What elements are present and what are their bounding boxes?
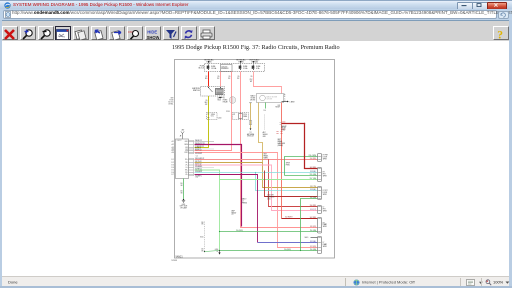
svg-text:E2 OR 22: E2 OR 22 bbox=[195, 148, 201, 150]
wire pink breaker leg to ignition switch bbox=[220, 72, 222, 87]
speaker connector C bbox=[318, 187, 322, 200]
wire dark red branch to connector B1 bbox=[282, 124, 318, 169]
wire red branch to connector D1 bbox=[269, 160, 318, 207]
wire green choke stub bbox=[264, 103, 267, 131]
svg-text:RADIO: RADIO bbox=[177, 139, 183, 142]
svg-text:RADIO: RADIO bbox=[242, 198, 248, 201]
label below ignition switch bbox=[218, 97, 222, 102]
svg-text:TO: TO bbox=[223, 98, 226, 100]
svg-text:GND: GND bbox=[263, 136, 266, 138]
svg-text:RD: RD bbox=[205, 78, 208, 80]
svg-text:(PREM): (PREM) bbox=[278, 145, 284, 147]
svg-text:DOOR: DOOR bbox=[323, 156, 327, 158]
svg-text:C126: C126 bbox=[243, 114, 247, 116]
circuit breaker box bbox=[221, 65, 233, 72]
svg-text:20: 20 bbox=[206, 100, 208, 102]
svg-text:FRT: FRT bbox=[323, 173, 326, 175]
svg-text:I/P: I/P bbox=[216, 251, 218, 253]
svg-text:150: 150 bbox=[180, 191, 183, 193]
svg-text:X02 (RD): X02 (RD) bbox=[310, 167, 317, 169]
left margin pin numbers bbox=[172, 140, 174, 176]
svg-text:X55 (GN): X55 (GN) bbox=[310, 174, 317, 176]
antenna module label bbox=[247, 132, 254, 138]
svg-text:X12 PK/WT: X12 PK/WT bbox=[195, 153, 202, 155]
svg-text:B 5: B 5 bbox=[172, 170, 174, 172]
speaker connector B bbox=[318, 168, 322, 182]
svg-text:RUN: RUN bbox=[218, 100, 222, 102]
svg-text:RD/WT: RD/WT bbox=[275, 107, 280, 109]
svg-text:X57 BR 22: X57 BR 22 bbox=[195, 169, 202, 171]
svg-text:X56 (RD): X56 (RD) bbox=[310, 205, 317, 207]
svg-text:C200: C200 bbox=[218, 118, 222, 120]
svg-text:PWR: PWR bbox=[184, 152, 187, 154]
svg-text:FEED: FEED bbox=[281, 130, 286, 132]
wire label 12 RD bbox=[205, 76, 208, 80]
radio noise choke box U1 bbox=[257, 94, 284, 103]
amp connector F right label bbox=[323, 242, 327, 248]
svg-text:TIMES: TIMES bbox=[238, 61, 244, 63]
wire pink fuse5 to amp connector E2 bbox=[241, 72, 318, 228]
svg-text:20: 20 bbox=[251, 76, 253, 78]
svg-text:FUSE: FUSE bbox=[211, 66, 215, 68]
svg-text:B 6: B 6 bbox=[172, 172, 174, 174]
wire tan choke pin A riser bbox=[259, 103, 263, 163]
svg-text:SHLD: SHLD bbox=[305, 237, 309, 239]
svg-text:X57 (GN): X57 (GN) bbox=[310, 178, 317, 180]
wire green riser to connector C3 bbox=[301, 199, 318, 251]
svg-text:52988: 52988 bbox=[171, 260, 178, 262]
svg-text:B 7: B 7 bbox=[172, 174, 174, 176]
svg-text:BLOCK: BLOCK bbox=[168, 102, 173, 104]
svg-text:BK: BK bbox=[202, 224, 204, 226]
svg-text:RT: RT bbox=[323, 222, 325, 224]
svg-text:B 3: B 3 bbox=[172, 165, 174, 167]
svg-text:PK: PK bbox=[217, 78, 220, 80]
svg-text:X02: X02 bbox=[278, 105, 281, 107]
svg-text:GND: GND bbox=[185, 141, 188, 143]
svg-text:150 (GRN): 150 (GRN) bbox=[284, 249, 291, 251]
wire shield stub F1 bbox=[305, 237, 318, 239]
wire dark red to amp E1 bbox=[282, 218, 318, 220]
svg-text:A: A bbox=[284, 93, 285, 96]
svg-text:RR-: RR- bbox=[185, 172, 188, 174]
svg-text:LT FRT: LT FRT bbox=[323, 190, 328, 192]
svg-text:FUSE: FUSE bbox=[200, 66, 204, 68]
label: hot at all times (fuse 13) bbox=[204, 58, 213, 63]
svg-text:OR RUN: OR RUN bbox=[251, 61, 258, 63]
splice labels bbox=[200, 222, 203, 253]
svg-text:ACC: ACC bbox=[218, 97, 222, 100]
text block radio C3 bbox=[242, 198, 248, 205]
svg-text:12: 12 bbox=[206, 76, 208, 78]
steering column connector dashed box bbox=[207, 113, 222, 120]
inline connector ticks C100 bbox=[276, 131, 282, 133]
svg-text:FEED: FEED bbox=[286, 164, 291, 166]
svg-text:150 (GRN): 150 (GRN) bbox=[236, 230, 243, 232]
speaker connector C wire code labels bbox=[310, 186, 317, 199]
svg-text:SPKR: SPKR bbox=[323, 175, 327, 177]
svg-text:MEM: MEM bbox=[184, 144, 188, 146]
svg-text:FUSE: FUSE bbox=[169, 100, 173, 102]
svg-text:SPKR: SPKR bbox=[323, 226, 327, 228]
svg-text:A 2: A 2 bbox=[172, 143, 174, 146]
svg-text:150: 150 bbox=[264, 110, 267, 112]
radio pin ticks bbox=[189, 142, 194, 175]
svg-text:C224: C224 bbox=[226, 111, 230, 113]
svg-text:INST: INST bbox=[278, 139, 282, 141]
label not used block bbox=[263, 131, 268, 138]
wire green radio case ground bbox=[183, 179, 185, 201]
text block amp relay bbox=[232, 209, 237, 216]
svg-text:A 1: A 1 bbox=[172, 140, 174, 143]
svg-text:F20 (PK): F20 (PK) bbox=[310, 226, 317, 228]
label: hot at all times (fuse 5) bbox=[236, 58, 245, 63]
ignition switch contacts bbox=[208, 87, 223, 95]
svg-text:DIM: DIM bbox=[185, 150, 188, 152]
svg-text:STRG: STRG bbox=[211, 114, 216, 116]
svg-text:SPKR: SPKR bbox=[323, 158, 327, 160]
radio pin labels group2 bbox=[185, 159, 188, 176]
fuse block top pin ticks bbox=[208, 61, 254, 64]
speaker connector D right label bbox=[323, 207, 327, 213]
svg-text:X56 DG/RD 22: X56 DG/RD 22 bbox=[195, 158, 205, 160]
footer caption bbox=[171, 256, 183, 262]
svg-text:150: 150 bbox=[201, 222, 204, 224]
fuse block dashed box bbox=[205, 64, 265, 72]
wire pink fuse6 to radio noise choke bbox=[254, 72, 282, 94]
svg-text:SPKR: SPKR bbox=[286, 162, 291, 164]
svg-text:20: 20 bbox=[229, 76, 231, 78]
choke left label bbox=[250, 95, 256, 102]
svg-text:F20 PK 22: F20 PK 22 bbox=[195, 149, 202, 151]
svg-text:C100: C100 bbox=[282, 121, 286, 123]
speaker connector C right label bbox=[323, 190, 328, 196]
instrument panel connector dashed box bbox=[233, 113, 249, 120]
speaker connector A right label bbox=[323, 155, 328, 161]
svg-text:C: C bbox=[284, 98, 286, 100]
svg-text:RADIO: RADIO bbox=[251, 95, 257, 98]
svg-text:RADIO NOISE: RADIO NOISE bbox=[267, 95, 277, 98]
tan antenna lead from choke bbox=[249, 103, 252, 131]
svg-text:20: 20 bbox=[218, 76, 220, 78]
junction dark red bbox=[304, 123, 305, 124]
fuse block label bbox=[199, 66, 205, 70]
title bar bbox=[0, 0, 512, 9]
svg-text:296 BK 22: 296 BK 22 bbox=[195, 140, 202, 142]
svg-text:RF+: RF+ bbox=[185, 159, 188, 161]
speaker connector D bbox=[318, 206, 322, 214]
svg-text:I/P: I/P bbox=[233, 114, 235, 116]
junction cyan bbox=[255, 172, 256, 173]
IE icon bbox=[4, 2, 11, 9]
svg-text:FRT: FRT bbox=[323, 208, 326, 210]
wire red choke output bbox=[281, 103, 283, 219]
antenna label bbox=[182, 128, 185, 131]
junction green ground run bbox=[219, 231, 220, 232]
svg-text:CIRCUIT: CIRCUIT bbox=[221, 66, 227, 68]
svg-text:X51 (BL): X51 (BL) bbox=[310, 241, 317, 243]
ground wire labels bbox=[180, 183, 183, 195]
svg-text:X55 BR/RD: X55 BR/RD bbox=[195, 166, 202, 168]
svg-text:SWITCH: SWITCH bbox=[193, 90, 200, 92]
svg-text:NOISE: NOISE bbox=[251, 98, 256, 100]
svg-text:WIRE: WIRE bbox=[243, 116, 247, 118]
ground G201 symbol bbox=[182, 199, 185, 202]
svg-text:LF+: LF+ bbox=[185, 165, 188, 167]
node arrow C MEM bbox=[282, 101, 296, 104]
svg-text:MODULE: MODULE bbox=[247, 136, 253, 138]
wire stub C2-4 bbox=[195, 166, 215, 168]
svg-text:LT: LT bbox=[323, 242, 325, 244]
svg-text:BK: BK bbox=[181, 193, 183, 195]
wire green ground to amp F4 bbox=[220, 250, 318, 252]
wire label 20 PK bbox=[217, 76, 220, 80]
svg-text:X51 BR/YL: X51 BR/YL bbox=[195, 175, 202, 177]
svg-text:ANT: ANT bbox=[182, 128, 185, 131]
amp connector E bbox=[318, 218, 322, 234]
wire light green to connector B4 bbox=[220, 179, 318, 181]
svg-text:BK: BK bbox=[202, 250, 204, 252]
svg-text:C2: C2 bbox=[196, 177, 198, 179]
svg-text:RR+: RR+ bbox=[185, 170, 188, 172]
svg-text:AMP: AMP bbox=[232, 209, 235, 212]
fuse F6 bbox=[252, 65, 261, 71]
wire green to amp E3 bbox=[220, 231, 318, 233]
address row bbox=[0, 9, 512, 20]
svg-text:RT: RT bbox=[323, 172, 325, 174]
ground G200 label bbox=[215, 249, 219, 253]
svg-text:SPKR: SPKR bbox=[323, 210, 327, 212]
label inst panel harness premium bbox=[278, 139, 285, 147]
wire light green C2-5 to ground run bbox=[195, 170, 220, 251]
svg-text:CHOKE: CHOKE bbox=[267, 98, 273, 100]
fuse F5 bbox=[239, 65, 249, 71]
svg-text:FUSE: FUSE bbox=[243, 66, 247, 68]
svg-text:LT: LT bbox=[323, 207, 325, 209]
wire blue amp F2 feed bbox=[258, 242, 318, 244]
diagram frame bbox=[175, 60, 335, 259]
wire stub ILL C1-4 bbox=[195, 148, 215, 150]
svg-text:S201: S201 bbox=[200, 237, 203, 239]
speaker connector B right label bbox=[323, 172, 327, 178]
wire label 20 PK bbox=[228, 76, 231, 80]
svg-text:C1: C1 bbox=[196, 156, 198, 158]
svg-text:C300: C300 bbox=[267, 199, 271, 201]
svg-text:VAN21: VAN21 bbox=[176, 256, 184, 259]
choke right pin labels bbox=[284, 93, 286, 103]
svg-text:(PREM): (PREM) bbox=[242, 203, 248, 205]
left margin note bbox=[168, 98, 173, 106]
wire cyan C2-6 to connectors B2 and C2 bbox=[195, 173, 318, 191]
svg-text:INST: INST bbox=[264, 154, 268, 156]
svg-text:150 (GN): 150 (GN) bbox=[310, 249, 317, 251]
svg-text:B 4: B 4 bbox=[172, 167, 174, 169]
wire label 20 BK/OR bbox=[205, 100, 208, 106]
radio pin labels group1 bbox=[184, 141, 188, 154]
svg-text:LEFT SIDE: LEFT SIDE bbox=[180, 206, 188, 208]
svg-text:PK/: PK/ bbox=[250, 79, 253, 81]
ignition switch dashed box bbox=[201, 87, 225, 97]
antenna symbol bbox=[180, 131, 185, 139]
junction green bottom bbox=[300, 250, 301, 251]
wire yellow ignition to radio C1-3 bbox=[195, 96, 209, 148]
svg-text:X54 (VT): X54 (VT) bbox=[310, 209, 317, 211]
speaker connector B wire code labels bbox=[310, 167, 317, 180]
wire magenta C2-7 to amp F2 bbox=[195, 175, 258, 243]
toolbar bbox=[0, 20, 512, 42]
connector bracket C100 bbox=[280, 121, 286, 124]
amp connector E right label bbox=[323, 222, 327, 228]
svg-text:X58 (TN): X58 (TN) bbox=[310, 186, 317, 188]
svg-text:B 2: B 2 bbox=[172, 162, 174, 164]
svg-text:CHOKE: CHOKE bbox=[250, 100, 255, 102]
svg-text:COL: COL bbox=[211, 116, 214, 118]
splice dashed reference bbox=[204, 222, 220, 253]
wire pink C2-3 to connector D2 bbox=[195, 165, 318, 211]
speaker connector A bbox=[318, 154, 322, 162]
svg-text:SPKR: SPKR bbox=[323, 194, 327, 196]
svg-text:PK: PK bbox=[237, 78, 240, 80]
wire magenta memory feed C1-2 bbox=[195, 145, 242, 227]
svg-text:SPKR: SPKR bbox=[323, 246, 327, 248]
svg-text:C3: C3 bbox=[242, 201, 244, 203]
svg-text:8A AMP: 8A AMP bbox=[281, 125, 286, 128]
fuse F13 bbox=[207, 65, 217, 71]
svg-text:SEE: SEE bbox=[170, 98, 173, 100]
wire green branch to connector B3 bbox=[285, 175, 318, 177]
svg-text:TO: TO bbox=[249, 132, 252, 134]
svg-text:C MEM: C MEM bbox=[289, 101, 295, 103]
svg-text:X12 (PK): X12 (PK) bbox=[310, 246, 317, 248]
junction salmon bbox=[268, 159, 269, 160]
wire red fuse13 to ignition switch bbox=[208, 72, 210, 87]
wire dark red to connector C4 bbox=[265, 171, 318, 197]
wire stub GND C1-1 bbox=[195, 140, 215, 142]
svg-text:X53 DB/WT: X53 DB/WT bbox=[195, 171, 202, 173]
svg-text:TIMES: TIMES bbox=[206, 61, 212, 63]
wire salmon C2-1 to connector A2 bbox=[195, 159, 318, 161]
ground G200 arrow bbox=[218, 250, 220, 255]
svg-text:ANT: ANT bbox=[263, 131, 266, 134]
text block door harness bbox=[267, 195, 274, 201]
radio unit box bbox=[176, 139, 194, 179]
svg-text:SHIELD: SHIELD bbox=[263, 134, 268, 136]
ignition switch label bbox=[192, 88, 200, 92]
svg-text:RF-: RF- bbox=[185, 162, 188, 164]
svg-text:X53 (BL): X53 (BL) bbox=[310, 171, 317, 173]
speaker connector A wire code labels bbox=[309, 155, 317, 160]
amp connector F wire code labels bbox=[310, 241, 317, 251]
wire pink C1-6 to amp F3 bbox=[195, 153, 318, 248]
svg-text:150 (GN): 150 (GN) bbox=[310, 230, 317, 232]
svg-text:BK/: BK/ bbox=[205, 102, 208, 104]
svg-text:OR: OR bbox=[205, 104, 208, 106]
svg-text:150: 150 bbox=[180, 183, 183, 185]
wire pink breaker leg to radio C1-5 bbox=[195, 72, 232, 151]
svg-text:PK: PK bbox=[228, 78, 231, 80]
svg-text:C2: C2 bbox=[232, 214, 234, 216]
label: hot in acc or run (fuse 6) bbox=[250, 58, 260, 63]
svg-text:150 (GN): 150 (GN) bbox=[310, 197, 317, 199]
label amp relay feed bbox=[281, 125, 286, 132]
amp connector E wire code labels bbox=[310, 217, 317, 232]
svg-text:X51 (GRN): X51 (GRN) bbox=[309, 155, 317, 157]
svg-text:X54 VT 22: X54 VT 22 bbox=[195, 164, 202, 166]
svg-text:150: 150 bbox=[201, 248, 204, 250]
svg-text:B: B bbox=[284, 96, 285, 98]
svg-text:B 1: B 1 bbox=[172, 159, 174, 161]
label choke output wire bbox=[275, 105, 280, 109]
svg-text:RT FRT: RT FRT bbox=[323, 155, 328, 157]
horn relay reference component bbox=[219, 97, 236, 104]
text block inst panel harness bbox=[264, 154, 269, 160]
svg-text:X02 (RD): X02 (RD) bbox=[310, 217, 317, 219]
amp connector F bbox=[318, 237, 322, 254]
svg-text:X53 (BL): X53 (BL) bbox=[310, 189, 317, 191]
svg-text:21 BK/OR 22: 21 BK/OR 22 bbox=[195, 146, 204, 148]
ground G201 label bbox=[180, 204, 188, 210]
svg-text:FUSE: FUSE bbox=[256, 66, 260, 68]
wire green to connector A1 bbox=[285, 157, 318, 176]
svg-text:X58 TN 22: X58 TN 22 bbox=[195, 161, 202, 163]
wire label 20 PK/WT bbox=[250, 76, 253, 83]
wire tan C2-2 to connector C1 bbox=[195, 163, 318, 188]
svg-text:LF-: LF- bbox=[186, 167, 189, 169]
svg-text:BLOCK: BLOCK bbox=[199, 68, 205, 70]
svg-text:WT: WT bbox=[250, 81, 253, 83]
svg-text:LR+: LR+ bbox=[185, 174, 188, 176]
svg-text:X56 (RD): X56 (RD) bbox=[310, 158, 317, 160]
svg-text:BK: BK bbox=[181, 185, 183, 187]
svg-text:LT DOOR: LT DOOR bbox=[267, 195, 274, 197]
svg-text:HORN: HORN bbox=[223, 100, 227, 102]
text block spkr feed bbox=[286, 162, 291, 166]
speaker connector D wire code labels bbox=[310, 205, 317, 211]
status bar bbox=[2, 276, 509, 287]
wire label 20 PK bbox=[237, 76, 240, 80]
svg-text:20: 20 bbox=[238, 76, 240, 78]
svg-text:780 PK/WT 22: 780 PK/WT 22 bbox=[195, 143, 205, 145]
svg-text:G201: G201 bbox=[182, 204, 186, 206]
svg-text:DOOR: DOOR bbox=[323, 192, 327, 194]
